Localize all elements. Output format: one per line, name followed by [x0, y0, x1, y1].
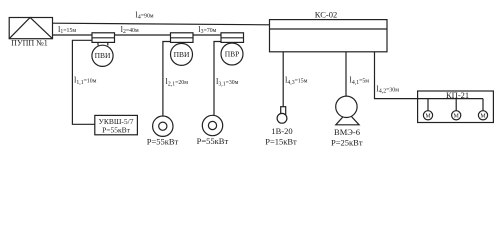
- wire l4,1: [345, 52, 347, 97]
- wire l1,1 to УКВШ: [72, 40, 94, 124]
- wire l4,2 to КП-21: [375, 52, 418, 99]
- svg-text:1В-20: 1В-20: [271, 126, 292, 136]
- motor M2: [202, 115, 222, 135]
- switch box ПВИ2: [171, 33, 194, 43]
- motor M1: [153, 116, 173, 136]
- device 1В-20: [277, 107, 287, 124]
- motor M3 in КП-21: [423, 99, 432, 120]
- transformer ПУПП №1: [9, 18, 52, 39]
- svg-text:Р=55кВт: Р=55кВт: [197, 136, 229, 146]
- svg-text:ПВИ: ПВИ: [95, 51, 111, 60]
- svg-text:КС-02: КС-02: [315, 10, 337, 20]
- svg-text:l4,3=15м: l4,3=15м: [285, 75, 308, 86]
- svg-text:l2,1=20м: l2,1=20м: [166, 76, 189, 87]
- switch box ПВР: [221, 33, 244, 43]
- pump ВМЭ-6: [336, 96, 359, 125]
- wire l3,1 to motor M2: [214, 42, 221, 116]
- wire l4 top bus: [53, 23, 270, 25]
- wire l1: [53, 34, 93, 36]
- svg-text:l3,1=30м: l3,1=30м: [216, 76, 239, 87]
- starter circle ПВИ1: [92, 42, 113, 66]
- wire inner bus КП-21: [418, 98, 483, 100]
- wire l2: [115, 34, 171, 36]
- svg-text:ВМЭ-6: ВМЭ-6: [334, 127, 360, 137]
- motor M5 in КП-21: [478, 99, 487, 120]
- svg-text:Р=25кВт: Р=25кВт: [331, 138, 363, 148]
- svg-text:l4=90м: l4=90м: [136, 9, 154, 20]
- svg-text:М: М: [425, 114, 431, 120]
- starter circle ПВИ2: [171, 43, 193, 65]
- svg-text:М: М: [480, 114, 486, 120]
- svg-text:М: М: [454, 114, 460, 120]
- svg-text:l4,1=5м: l4,1=5м: [350, 75, 370, 86]
- svg-text:l4,2=30м: l4,2=30м: [377, 83, 400, 94]
- svg-text:l1=15м: l1=15м: [58, 24, 76, 35]
- wire l3: [193, 34, 221, 36]
- box КС-02: [270, 20, 388, 52]
- motor M4 in КП-21: [452, 99, 461, 120]
- svg-text:l2=40м: l2=40м: [121, 24, 139, 35]
- svg-text:ПВР: ПВР: [225, 49, 240, 58]
- wire l2,1 to motor M1: [163, 42, 171, 117]
- svg-text:Р=15кВт: Р=15кВт: [265, 137, 297, 147]
- starter circle ПВР: [221, 43, 243, 65]
- svg-text:Р=55кВт: Р=55кВт: [147, 137, 179, 147]
- wire l4,3: [282, 52, 284, 107]
- svg-text:l3=70м: l3=70м: [198, 24, 216, 35]
- svg-text:ПУПП №1: ПУПП №1: [11, 39, 48, 48]
- switch box ПВИ1: [92, 33, 115, 43]
- box УКВШ-5/7: [95, 115, 138, 134]
- svg-text:Р=55кВт: Р=55кВт: [102, 125, 131, 134]
- svg-text:l1,1=10м: l1,1=10м: [74, 75, 97, 86]
- box КП-21: [418, 90, 494, 123]
- svg-text:ПВИ: ПВИ: [174, 50, 190, 59]
